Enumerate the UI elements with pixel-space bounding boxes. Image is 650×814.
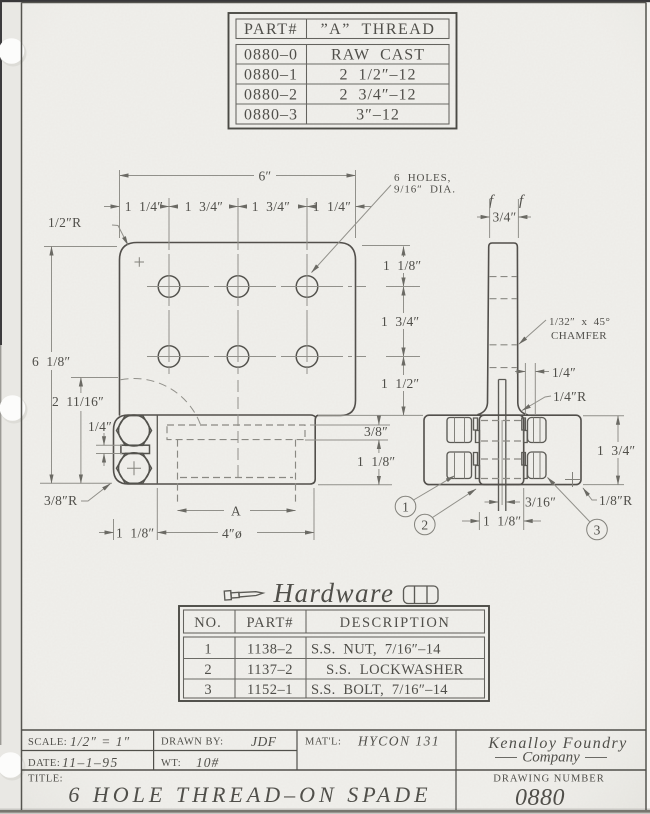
- centerline column 3: [306, 198, 308, 374]
- svg-text:3: 3: [204, 682, 211, 698]
- chamfer leader: [519, 320, 546, 344]
- svg-text:PART#: PART#: [244, 21, 298, 38]
- svg-text:3/16″: 3/16″: [525, 495, 556, 510]
- spacing arrow right outside: [356, 206, 372, 208]
- svg-text:SCALE:: SCALE:: [28, 737, 67, 748]
- svg-text:S.S. NUT, 7/16″–14: S.S. NUT, 7/16″–14: [311, 642, 441, 658]
- svg-text:DATE:: DATE:: [28, 758, 60, 769]
- title block mid row line: [22, 750, 298, 752]
- callout circle 2: [415, 514, 436, 535]
- spacing arrow left outside: [104, 206, 120, 208]
- svg-text:6 HOLE THREAD–ON SPADE: 6 HOLE THREAD–ON SPADE: [68, 782, 431, 807]
- hardware column lines: [235, 610, 306, 698]
- leader callout 1: [414, 476, 455, 500]
- svg-text:1 1/8″: 1 1/8″: [116, 526, 154, 541]
- svg-text:Hardware: Hardware: [272, 578, 394, 608]
- svg-text:A: A: [231, 504, 241, 519]
- svg-text:1138–2: 1138–2: [247, 642, 293, 658]
- hole A2: [227, 276, 249, 298]
- svg-text:S.S. BOLT, 7/16″–14: S.S. BOLT, 7/16″–14: [311, 682, 448, 698]
- svg-text:1: 1: [204, 642, 211, 658]
- svg-text:”A” THREAD: ”A” THREAD: [321, 21, 436, 38]
- hex bolt flats bottom: [117, 453, 152, 483]
- center cross barrel right: [565, 472, 580, 487]
- leader 1/2R: [112, 225, 128, 245]
- dim A: [178, 510, 225, 512]
- bolt head bottom right: [528, 452, 547, 479]
- table column divider: [306, 19, 308, 124]
- punch hole top: [0, 40, 27, 67]
- lockwasher bottom right: [522, 453, 527, 479]
- svg-text:1/4″: 1/4″: [552, 365, 576, 380]
- hardware table header box: [184, 610, 485, 633]
- hardware row lines: [184, 659, 485, 680]
- svg-text:1 1/2″: 1 1/2″: [381, 376, 419, 391]
- punch hole bottom: [0, 754, 26, 781]
- swing arc dashed: [121, 379, 202, 429]
- svg-text:2 3/4″–12: 2 3/4″–12: [339, 87, 416, 104]
- svg-text:3/8″R: 3/8″R: [44, 493, 77, 508]
- svg-text:NO.: NO.: [194, 615, 222, 631]
- hidden slot rectangle: [167, 425, 305, 440]
- hex nut circle top: [119, 415, 150, 446]
- svg-text:6″: 6″: [259, 169, 272, 184]
- svg-text:0880–2: 0880–2: [244, 87, 298, 104]
- hub hidden bolt lines: [481, 421, 522, 479]
- spacing arrow pair at col3: [307, 206, 316, 208]
- svg-text:1/32″ x 45°: 1/32″ x 45°: [549, 316, 610, 328]
- svg-text:1/4″R: 1/4″R: [553, 389, 586, 404]
- svg-text:2: 2: [204, 662, 211, 678]
- svg-text:2 1/2″–12: 2 1/2″–12: [339, 67, 416, 84]
- svg-text:RAW CAST: RAW CAST: [331, 47, 425, 64]
- web plate lines: [499, 380, 506, 512]
- fillet cusp plate/barrel junction: [315, 416, 317, 421]
- title block vertical wt/matl: [296, 730, 298, 770]
- blade hidden hole lines: [490, 277, 517, 368]
- leader 1/8R: [583, 488, 597, 500]
- svg-text:1/8″R: 1/8″R: [599, 493, 632, 508]
- svg-text:HYCON 131: HYCON 131: [357, 734, 440, 749]
- hidden bore line left: [177, 440, 179, 503]
- svg-text:1137–2: 1137–2: [247, 662, 293, 678]
- page left dark edge: [0, 0, 2, 345]
- svg-text:1 1/4″: 1 1/4″: [313, 199, 351, 214]
- svg-text:1 1/8″: 1 1/8″: [483, 514, 521, 529]
- plate outline (front view): [120, 243, 356, 416]
- svg-text:1152–1: 1152–1: [247, 682, 293, 698]
- svg-text:1/2″R: 1/2″R: [48, 215, 81, 230]
- svg-text:0880: 0880: [515, 785, 565, 811]
- hex nut flats top: [117, 416, 152, 446]
- dim 6 1/8 left: [40, 247, 117, 484]
- dim 3/8 slot: [305, 425, 392, 485]
- hidden bore bottom: [180, 477, 293, 479]
- svg-text:1 3/4″: 1 3/4″: [381, 314, 419, 329]
- hole spacing dim ticks: [169, 199, 307, 216]
- part/thread table body box: [236, 45, 449, 125]
- hole B1: [158, 346, 180, 368]
- svg-text:11–1–95: 11–1–95: [62, 755, 119, 770]
- spacing arrow pair at col2: [238, 206, 247, 208]
- barrel end cap line: [156, 415, 158, 484]
- svg-text:2: 2: [421, 518, 428, 533]
- lockwasher top left: [474, 418, 480, 443]
- right stack dim 1 3/4: [403, 287, 405, 314]
- svg-text:MAT'L:: MAT'L:: [305, 737, 341, 748]
- nut N2 bottom left: [447, 452, 472, 479]
- hex bolt circle bottom: [119, 453, 150, 484]
- svg-text:JDF: JDF: [251, 734, 277, 749]
- spacing arrow pair at col1: [169, 206, 178, 208]
- hardware table body box: [184, 637, 485, 698]
- center cross plate corner: [135, 257, 145, 266]
- svg-text:1 1/8″: 1 1/8″: [383, 258, 421, 273]
- bolt head top right: [528, 418, 547, 443]
- blade bar outline (side view): [478, 243, 528, 415]
- part/thread table outer border: [229, 13, 457, 129]
- svg-text:10#: 10#: [196, 755, 219, 770]
- svg-text:Company: Company: [522, 750, 580, 766]
- svg-text:1 3/4″: 1 3/4″: [597, 443, 635, 458]
- svg-text:4″ø: 4″ø: [222, 526, 242, 541]
- svg-text:1 1/4″: 1 1/4″: [125, 199, 163, 214]
- svg-text:2 11/16″: 2 11/16″: [52, 394, 104, 409]
- svg-text:S.S. LOCKWASHER: S.S. LOCKWASHER: [326, 662, 464, 678]
- svg-text:0880–1: 0880–1: [244, 67, 298, 84]
- dim 3/4 blade: [490, 199, 519, 238]
- dim 4 dia and 1 1/8 bottom: [114, 488, 315, 540]
- centerline row 2: [147, 356, 366, 358]
- svg-text:6 1/8″: 6 1/8″: [32, 354, 70, 369]
- barrel outline (side view): [424, 415, 581, 484]
- title block vertical company: [455, 730, 457, 810]
- nut N1 top left: [447, 418, 472, 443]
- svg-text:DRAWING NUMBER: DRAWING NUMBER: [493, 774, 604, 785]
- dim 1 1/8 hub: [479, 488, 523, 530]
- hidden bore line right: [295, 440, 297, 503]
- svg-text:DESCRIPTION: DESCRIPTION: [340, 615, 451, 631]
- svg-text:PART#: PART#: [246, 615, 293, 631]
- svg-text:3: 3: [594, 523, 601, 538]
- table row lines: [236, 64, 449, 104]
- lockwasher edge rect: [121, 445, 150, 453]
- leader callout 3: [548, 478, 591, 523]
- hole A3: [296, 276, 318, 298]
- right page edge strip: [646, 0, 650, 814]
- ext lines 1/4 step: [525, 363, 535, 415]
- centerline column 2 lower dashed: [237, 380, 239, 480]
- svg-text:6 HOLES,: 6 HOLES,: [394, 172, 451, 184]
- leader 6 holes: [312, 185, 392, 273]
- svg-text:WT:: WT:: [161, 758, 181, 769]
- hole A1: [158, 276, 180, 298]
- right stack ext lines: [318, 246, 423, 416]
- svg-text:1 3/4″: 1 3/4″: [252, 199, 290, 214]
- nut icon: [404, 586, 439, 604]
- screw icon: [224, 588, 263, 600]
- svg-text:9/16″ DIA.: 9/16″ DIA.: [394, 184, 456, 196]
- right stack dim 1 1/8 top: [403, 247, 405, 258]
- svg-text:0880–3: 0880–3: [244, 107, 298, 124]
- hardware table outer border: [179, 606, 489, 701]
- callout circle 3: [587, 519, 608, 540]
- center cross in bottom circle: [127, 461, 141, 475]
- leader callout 2: [433, 489, 477, 518]
- hole B2: [227, 346, 249, 368]
- dim 2 11/16: [71, 377, 118, 379]
- svg-text:1 1/8″: 1 1/8″: [357, 454, 395, 469]
- svg-text:1: 1: [402, 500, 409, 515]
- svg-text:3/4″: 3/4″: [493, 210, 517, 225]
- part/thread table header box: [236, 19, 449, 39]
- hole B3: [296, 346, 318, 368]
- leader 1/4R: [522, 396, 551, 411]
- dim 1 3/4 right: [583, 416, 624, 485]
- lockwasher bottom left: [474, 453, 480, 479]
- page bottom scan band: [0, 809, 650, 814]
- centerline column 1: [168, 198, 170, 374]
- lockwasher top right: [522, 418, 527, 443]
- leader 3/8R: [81, 484, 111, 502]
- bolt centerline: [501, 420, 503, 505]
- centerline row 1: [147, 286, 366, 288]
- punch hole middle: [1, 397, 28, 424]
- dim 6 inch: [120, 175, 255, 177]
- barrel outline (front view): [114, 415, 316, 484]
- svg-text:DRAWN BY:: DRAWN BY:: [161, 737, 224, 748]
- svg-text:TITLE:: TITLE:: [28, 774, 63, 785]
- svg-text:1/4″: 1/4″: [88, 419, 112, 434]
- dim 1 1/8 lower right: [378, 469, 380, 485]
- svg-text:0880–0: 0880–0: [244, 47, 298, 64]
- svg-text:1 3/4″: 1 3/4″: [185, 199, 223, 214]
- title block top line: [22, 729, 647, 731]
- centerline column 2: [237, 198, 239, 374]
- svg-text:1/2″ = 1″: 1/2″ = 1″: [70, 734, 130, 749]
- dim 3/16 web: [485, 501, 499, 503]
- title block row line above title: [22, 769, 647, 771]
- dim 1/4 washer: [96, 445, 122, 453]
- title block vertical scale/drawn: [153, 730, 155, 770]
- svg-text:CHAMFER: CHAMFER: [551, 330, 607, 342]
- dim 1/4 step: [515, 371, 525, 373]
- callout circle 1: [395, 496, 416, 517]
- left margin strip: [0, 0, 21, 814]
- hub outline: [479, 415, 523, 484]
- right stack dim 1 1/2: [403, 357, 405, 376]
- svg-text:3″–12: 3″–12: [356, 107, 400, 124]
- page top dark edge: [0, 0, 650, 2]
- svg-text:3/8″: 3/8″: [364, 424, 388, 439]
